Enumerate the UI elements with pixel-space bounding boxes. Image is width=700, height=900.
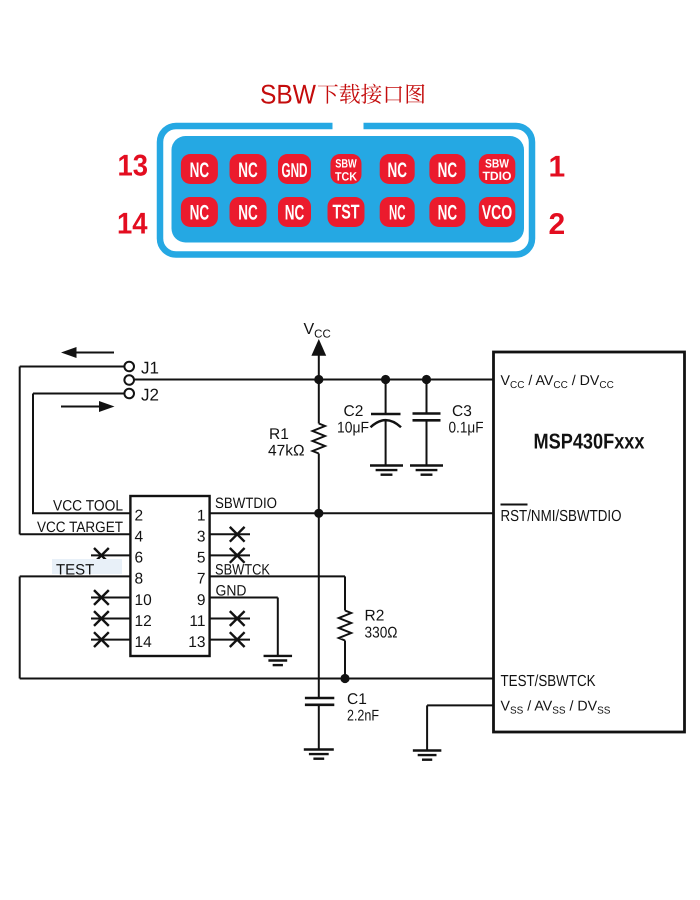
connector pin top row 4 NC [429, 154, 465, 184]
wire pin8 TEST [20, 575, 131, 577]
capacitor C1 [305, 698, 334, 750]
svg-text:VCO: VCO [482, 202, 513, 224]
svg-text:14: 14 [117, 208, 148, 241]
title text "SBW下载接口图" [260, 80, 425, 110]
connector pin top row 1 NC [181, 154, 218, 184]
svg-text:TCK: TCK [335, 170, 357, 184]
wire VCC rail [134, 379, 494, 381]
header J connector box [130, 496, 209, 656]
wire left outer vertical [19, 367, 21, 535]
resistor R2 [339, 611, 351, 679]
pin10 no-connect X [91, 590, 130, 605]
svg-text:10μF: 10μF [337, 420, 369, 437]
svg-text:8: 8 [135, 571, 144, 588]
svg-text:NC: NC [285, 202, 305, 225]
jumper J1 pin circle [124, 362, 134, 372]
junction R2 bottom [340, 674, 349, 683]
wire pin4 VCC TARGET [20, 533, 131, 535]
svg-text:330Ω: 330Ω [365, 625, 398, 642]
capacitor C3 [413, 380, 441, 466]
svg-text:9: 9 [197, 592, 206, 609]
wire TEST left vertical [19, 577, 21, 679]
svg-text:NC: NC [238, 202, 258, 225]
svg-text:NC: NC [238, 159, 258, 182]
svg-text:7: 7 [197, 571, 206, 588]
connector outer outline [160, 126, 532, 255]
pin14 no-connect X [91, 632, 130, 647]
wire inner vertical [32, 394, 34, 514]
svg-text:47kΩ: 47kΩ [268, 443, 305, 460]
svg-text:TEST/SBWTCK: TEST/SBWTCK [501, 673, 596, 690]
IC U1 MSP430Fxxx box [494, 352, 685, 732]
wire TEST bottom rail [20, 678, 494, 680]
svg-text:RST/NMI/SBWTDIO: RST/NMI/SBWTDIO [501, 508, 622, 525]
connector pin GND [278, 154, 311, 184]
ground below VSS [413, 751, 442, 760]
ground below C3 [410, 466, 443, 475]
wire J2 to inner rail [33, 393, 124, 395]
svg-text:NC: NC [190, 202, 210, 225]
svg-text:NC: NC [190, 159, 210, 182]
ground below C2 [370, 466, 403, 475]
label TEST [52, 559, 122, 574]
ground below pin9 [264, 656, 293, 665]
svg-text:R1: R1 [269, 426, 289, 443]
wire pin2 VCC TOOL [32, 512, 130, 514]
svg-text:J1: J1 [141, 359, 159, 378]
svg-text:TDIO: TDIO [483, 169, 512, 183]
svg-text:NC: NC [387, 159, 407, 182]
header pin numbers left column [135, 508, 153, 651]
pin3 no-connect X [210, 527, 250, 542]
connector pin bottom row 3 NC [278, 197, 311, 227]
svg-text:0.1μF: 0.1μF [449, 420, 484, 437]
svg-text:J2: J2 [141, 386, 159, 405]
RST overline [501, 504, 528, 506]
svg-text:NC: NC [389, 202, 406, 225]
connector pin VCO [479, 197, 516, 227]
svg-text:TST: TST [333, 202, 360, 224]
pin13 no-connect X [210, 632, 250, 647]
svg-text:5: 5 [197, 550, 206, 567]
svg-text:14: 14 [135, 634, 153, 651]
svg-text:SBW: SBW [335, 157, 357, 171]
svg-text:C1: C1 [347, 691, 367, 708]
wire VSS to ground [427, 705, 493, 750]
connector pin bottom row 4 NC [380, 197, 415, 227]
jumper common pin circle [124, 375, 134, 385]
connector pin bottom row 5 NC [429, 197, 465, 227]
connector pin bottom row 1 NC [181, 197, 218, 227]
connector pin top row 2 NC [230, 154, 267, 184]
svg-text:VCC: VCC [304, 321, 331, 341]
svg-text:NC: NC [438, 159, 458, 182]
wire pin9 GND [210, 598, 278, 656]
pin6 no-connect X [91, 548, 130, 563]
connector pin SBW TCK [331, 154, 362, 184]
svg-text:1: 1 [549, 151, 566, 184]
pin12 no-connect X [91, 611, 130, 626]
junction VCC stem [314, 375, 323, 384]
svg-text:C3: C3 [452, 403, 472, 420]
svg-text:VCC TOOL: VCC TOOL [53, 498, 123, 515]
pin5 no-connect X [210, 548, 250, 563]
svg-text:10: 10 [135, 592, 153, 609]
svg-text:NC: NC [438, 202, 458, 225]
capacitor C2 [371, 380, 402, 466]
wire J1 to left rail [20, 366, 125, 368]
svg-text:GND: GND [282, 160, 308, 182]
VCC supply arrow [311, 339, 326, 380]
connector key notch [333, 119, 364, 134]
wire R1 bottom to C1 [318, 513, 320, 698]
connector pin SBW TDIO [479, 154, 516, 184]
svg-text:2: 2 [549, 208, 566, 241]
connector body [172, 136, 525, 243]
svg-text:2: 2 [135, 508, 144, 525]
current arrow left [61, 347, 114, 358]
svg-text:1: 1 [197, 508, 206, 525]
svg-text:4: 4 [135, 529, 144, 546]
svg-text:C2: C2 [344, 403, 364, 420]
svg-text:6: 6 [135, 550, 144, 567]
resistor R1 [313, 380, 325, 514]
svg-text:SBW: SBW [260, 80, 316, 110]
current arrow right [61, 401, 115, 412]
junction C2 top [381, 375, 390, 384]
junction SBWTDIO at R1 [314, 509, 323, 518]
svg-text:SBWTDIO: SBWTDIO [215, 495, 277, 512]
svg-text:12: 12 [135, 613, 152, 630]
ground below C1 [304, 750, 334, 759]
wire pin1 SBWTDIO to RST [210, 512, 494, 514]
svg-text:R2: R2 [365, 608, 385, 625]
wire pin7 SBWTCK to R2 [210, 576, 345, 610]
svg-text:13: 13 [118, 150, 149, 183]
svg-text:3: 3 [197, 529, 206, 546]
svg-text:MSP430Fxxx: MSP430Fxxx [534, 430, 645, 454]
svg-text:11: 11 [189, 613, 205, 630]
pin11 no-connect X [210, 611, 250, 626]
svg-text:13: 13 [188, 634, 205, 651]
jumper J2 pin circle [124, 389, 134, 399]
svg-text:2.2nF: 2.2nF [347, 708, 379, 725]
connector pin top row 3 NC [380, 154, 415, 184]
header pin numbers right column [188, 508, 205, 651]
connector pin bottom row 2 NC [230, 197, 267, 227]
connector pin TST [328, 197, 365, 227]
junction C3 top [422, 375, 431, 384]
